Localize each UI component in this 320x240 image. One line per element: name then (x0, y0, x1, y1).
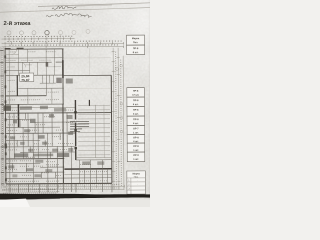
svg-text:1 шт.: 1 шт. (133, 149, 139, 152)
svg-text:ПР-6: ПР-6 (133, 90, 139, 93)
svg-text:ПР-9: ПР-9 (133, 154, 139, 157)
svg-text:17 шт.: 17 шт. (132, 94, 139, 97)
svg-text:ПР-8: ПР-8 (133, 136, 139, 139)
svg-text:ПР-6: ПР-6 (133, 109, 139, 112)
svg-text:ПР-6: ПР-6 (133, 47, 139, 50)
svg-text:1 шт.: 1 шт. (133, 131, 139, 134)
svg-text:4 шт.: 4 шт. (133, 122, 139, 125)
svg-text:ПР-6: ПР-6 (133, 118, 139, 121)
svg-text:Поз.: Поз. (134, 176, 139, 179)
svg-text:Марка: Марка (132, 37, 140, 40)
svg-text:75,87: 75,87 (21, 78, 29, 82)
svg-text:ПР-6: ПР-6 (133, 99, 139, 102)
svg-text:4 шт.: 4 шт. (133, 140, 139, 143)
svg-text:4 шт.: 4 шт. (133, 103, 139, 106)
svg-text:6 шт.: 6 шт. (133, 51, 139, 54)
svg-text:ПР-7: ПР-7 (133, 127, 139, 130)
svg-text:1 шт.: 1 шт. (133, 158, 139, 161)
svg-text:4 шт.: 4 шт. (133, 113, 139, 116)
svg-text:2-й этажа: 2-й этажа (4, 20, 32, 27)
svg-text:Поз.: Поз. (133, 41, 138, 44)
svg-text:ПР-8: ПР-8 (133, 145, 139, 148)
